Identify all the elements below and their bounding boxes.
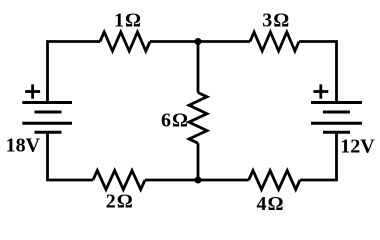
svg-text:2Ω: 2Ω: [106, 191, 134, 213]
battery V1 18V plates: [22, 103, 72, 133]
resistor R1 1ohm: [100, 32, 150, 51]
wire top-middle segment: [150, 40, 250, 43]
resistor R4 4ohm: [249, 171, 300, 190]
resistor R3 3ohm: [250, 32, 299, 51]
battery V2 12V plates: [311, 103, 362, 133]
svg-text:4Ω: 4Ω: [257, 193, 285, 215]
resistor R2 2ohm: [93, 171, 145, 190]
wire middle branch lower: [197, 143, 200, 180]
svg-text:1Ω: 1Ω: [114, 10, 142, 32]
wire bottom-middle segment: [145, 179, 249, 182]
wire middle branch upper: [197, 42, 200, 93]
plus sign of battery V1: [25, 84, 40, 98]
wire bottom-left segment: [48, 132, 94, 180]
wire bottom-right segment: [300, 132, 337, 180]
svg-text:12V: 12V: [340, 136, 375, 158]
wire top-left segment: [48, 42, 101, 103]
svg-text:6Ω: 6Ω: [161, 110, 189, 132]
resistor R6 6ohm: [189, 93, 207, 144]
wire top-right segment: [299, 42, 337, 103]
junction node bottom: [195, 177, 202, 184]
plus sign of battery V2: [313, 84, 328, 98]
junction node top: [195, 38, 202, 45]
svg-text:3Ω: 3Ω: [262, 10, 290, 32]
svg-text:18V: 18V: [6, 135, 41, 157]
